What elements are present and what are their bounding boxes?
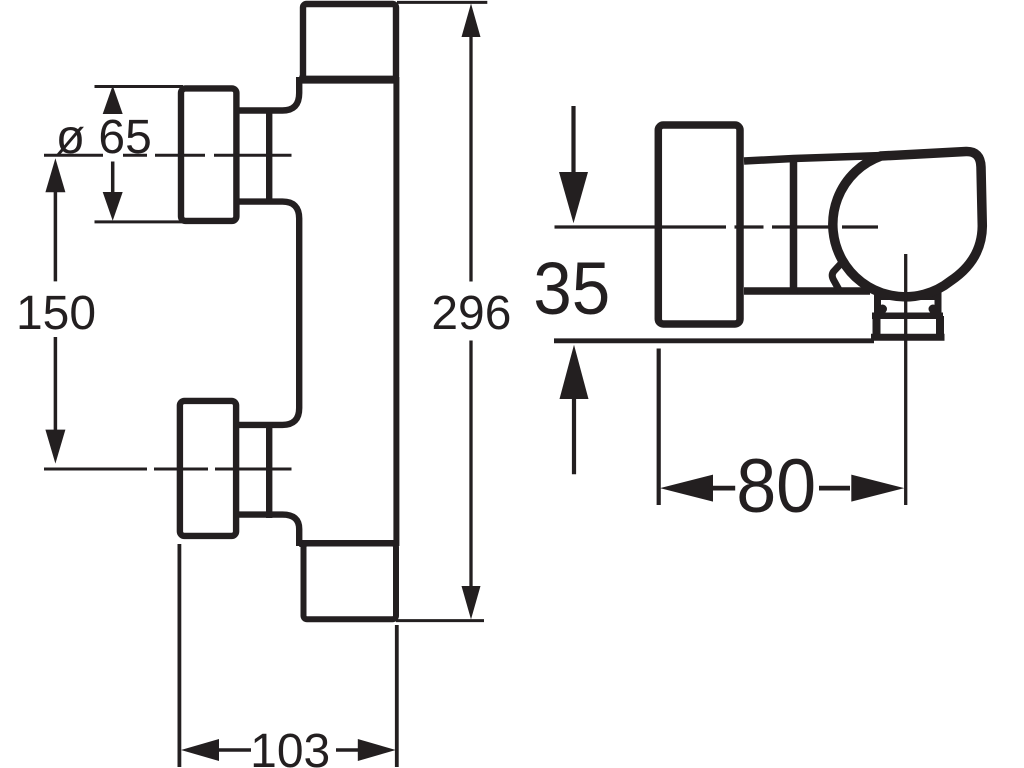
right view: outlet collar click-stops [878,305,887,314]
left view: upper knob escutcheon separator [266,108,272,204]
dim 103: right line and arrow [336,739,396,761]
dim 80: right line and arrow [819,475,904,502]
svg-text:103: 103 [250,725,330,768]
left view: lower knob [180,401,236,536]
right view: knob [658,125,740,324]
dim 80: left arrow and line [660,475,735,502]
svg-text:296: 296 [431,287,511,340]
upper knob centerline [44,154,292,157]
dim 35: up arrow and lower stem [560,345,589,475]
dim 80: left extension line [657,349,661,506]
right view: outlet collar [874,288,942,315]
lower knob centerline [44,468,292,471]
dim 296: up arrow, stems, down arrow [462,4,481,620]
dim ø65: up arrow [103,86,123,115]
left view: upper knob [181,88,236,221]
svg-text:80: 80 [736,444,816,529]
right view: outlet vertical centerline [904,254,907,505]
left view: body right edge [393,77,399,546]
left view: upper neck bottom, body left edge, lower neck top [237,202,300,425]
right view: escutcheon joint line [790,158,798,294]
left view: bottom wall flange [299,544,397,620]
dim 150: upper arrow and stem [45,158,65,281]
right view: outlet mid flange line [872,312,943,319]
right view: body top line [744,155,900,161]
dim 296: top extension line [397,1,487,4]
dim 296: bottom extension line [396,619,484,622]
dim 103: left arrow and line [181,739,251,761]
svg-text:150: 150 [16,287,96,340]
left view: lower knob escutcheon separator [266,422,272,518]
right view: lever tip (diamond) [832,260,844,293]
svg-text:35: 35 [533,247,610,330]
dim ø65: top extension line [95,85,184,88]
svg-text:ø 65: ø 65 [56,111,152,164]
left view: body left edge + upper knob neck top [237,77,300,111]
right view: body bottom line [744,287,870,295]
right view: horizontal centerline [555,225,879,228]
dim 103: right extension line [395,625,399,767]
left view: top wall flange [299,4,398,80]
dim 35: upper stem and down arrow [559,106,588,223]
right view: outlet hose nut [871,316,945,338]
dim ø65: lower stem and down arrow [103,162,123,221]
dim 35: lower extension line [554,338,874,343]
left view: lower neck bottom + body left edge to bottom flange [237,515,300,546]
dim 150: lower stem and down arrow [45,337,65,464]
dim 103: left extension line [177,544,181,767]
dim ø65: bottom extension line [95,220,184,223]
right view: lever handle body [833,151,982,296]
